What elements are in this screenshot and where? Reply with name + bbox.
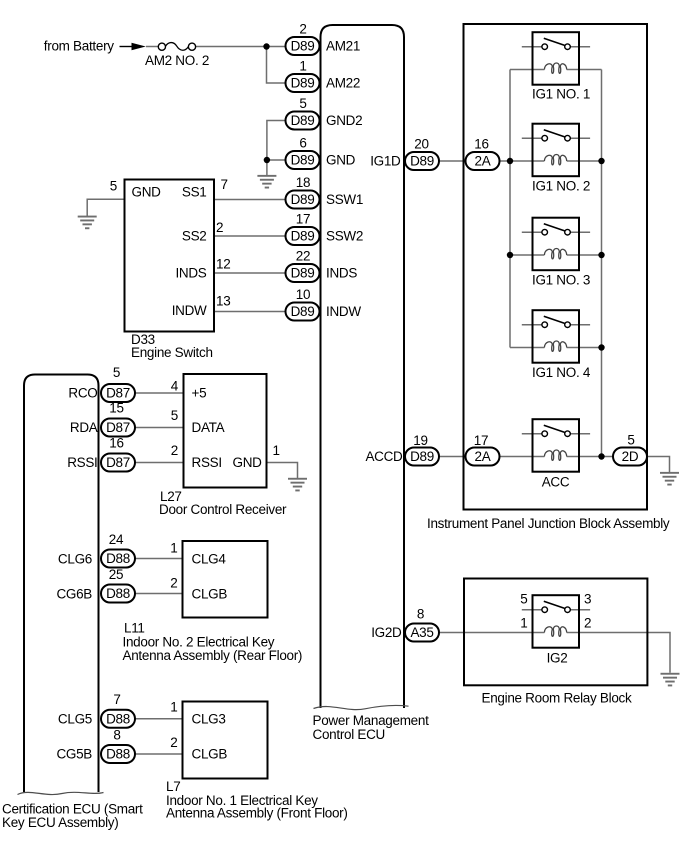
wire CLG5 to L7 bbox=[135, 718, 183, 720]
ground (GND2/GND of ECU) bbox=[257, 175, 276, 189]
wire CLG6 to L11 bbox=[135, 558, 183, 560]
svg-text:Antenna Assembly (Front Floor): Antenna Assembly (Front Floor) bbox=[166, 806, 348, 821]
svg-text:L7: L7 bbox=[166, 779, 180, 794]
svg-text:INDW: INDW bbox=[172, 303, 207, 318]
ECU U1 box bbox=[321, 25, 405, 708]
svg-text:IG1 NO. 3: IG1 NO. 3 bbox=[532, 272, 590, 287]
svg-text:17: 17 bbox=[296, 212, 310, 227]
connector D89 pin 2 (AM21) bbox=[286, 37, 320, 55]
svg-text:INDW: INDW bbox=[326, 304, 361, 319]
svg-text:4: 4 bbox=[171, 379, 179, 394]
ground (engine switch) bbox=[78, 216, 97, 230]
svg-text:2A: 2A bbox=[475, 449, 491, 464]
certification ECU break wave bbox=[18, 792, 104, 794]
svg-text:D89: D89 bbox=[291, 39, 315, 54]
node GND junction bbox=[264, 157, 270, 163]
svg-text:IG1 NO. 4: IG1 NO. 4 bbox=[532, 365, 591, 380]
connector D88 pin 8 (CG5B) bbox=[101, 745, 135, 763]
svg-text:5: 5 bbox=[110, 179, 117, 194]
wire GND2 to ground bbox=[267, 121, 286, 176]
svg-text:IG2: IG2 bbox=[547, 650, 568, 665]
svg-text:AM22: AM22 bbox=[326, 76, 360, 91]
svg-text:CLG5: CLG5 bbox=[58, 711, 92, 726]
svg-text:Key ECU Assembly): Key ECU Assembly) bbox=[2, 815, 118, 830]
connector D88 pin 25 (CG6B) bbox=[101, 585, 135, 603]
fuse 2A pin 16 bbox=[466, 152, 500, 170]
wire IG1 NO.2 coil to right bus bbox=[579, 160, 602, 162]
svg-text:1: 1 bbox=[299, 59, 306, 74]
wire battery branch to AM22 bbox=[267, 47, 286, 84]
wire IG1 NO.1 coil leads bbox=[510, 69, 533, 71]
wire SS2 to SSW2 bbox=[214, 235, 286, 237]
svg-text:2: 2 bbox=[584, 616, 591, 631]
svg-text:13: 13 bbox=[216, 294, 230, 309]
svg-text:D89: D89 bbox=[291, 113, 315, 128]
wire IG1 NO.3 coil leads bbox=[510, 254, 533, 256]
wire ACC coil to 2D bbox=[579, 456, 613, 458]
relay IG1 NO. 2 bbox=[522, 124, 590, 177]
svg-text:AM2 NO. 2: AM2 NO. 2 bbox=[145, 53, 209, 68]
wire L27 GND to ground bbox=[267, 463, 298, 479]
engine switch D33 box bbox=[125, 180, 215, 332]
svg-text:18: 18 bbox=[296, 175, 310, 190]
relay IG1 NO. 1 bbox=[522, 32, 590, 84]
svg-text:25: 25 bbox=[109, 567, 123, 582]
wire 2A fuse to ACC coil bbox=[500, 456, 533, 458]
svg-text:L11: L11 bbox=[124, 621, 145, 636]
connector D89 pin 10 (INDW) bbox=[286, 303, 320, 321]
wire RSSI to L27 bbox=[135, 462, 184, 464]
indoor no.2 antenna box bbox=[183, 541, 268, 618]
svg-text:Instrument Panel Junction Bloc: Instrument Panel Junction Block Assembly bbox=[427, 516, 670, 531]
svg-text:DATA: DATA bbox=[192, 420, 225, 435]
svg-text:2: 2 bbox=[216, 220, 223, 235]
connector A35 pin 8 (IG2D) bbox=[405, 624, 439, 642]
svg-text:1: 1 bbox=[170, 541, 177, 556]
connector D88 pin 24 (CLG6) bbox=[101, 550, 135, 568]
svg-text:Antenna Assembly (Rear Floor): Antenna Assembly (Rear Floor) bbox=[123, 648, 303, 663]
connector D88 pin 7 (CLG5) bbox=[101, 710, 135, 728]
wire engine switch GND to ground bbox=[87, 199, 124, 216]
svg-text:AM21: AM21 bbox=[326, 39, 360, 54]
node left bus IG1 NO.2 bbox=[507, 158, 513, 164]
wire 2D to ground bbox=[647, 457, 669, 473]
node right bus ACC bbox=[598, 453, 604, 459]
wire A35 to IG2 coil bbox=[439, 632, 533, 634]
wire IG1 NO.4 coil leads bbox=[510, 347, 533, 349]
svg-text:12: 12 bbox=[216, 257, 230, 272]
svg-text:ACC: ACC bbox=[542, 475, 570, 490]
svg-text:2: 2 bbox=[170, 735, 177, 750]
svg-text:24: 24 bbox=[109, 532, 124, 547]
wire from battery to AM21 bbox=[146, 46, 158, 48]
svg-text:SSW1: SSW1 bbox=[326, 192, 363, 207]
connector 2D pin 5 bbox=[613, 448, 647, 466]
svg-text:D89: D89 bbox=[291, 229, 315, 244]
wire IG1D D89 to 2A fuse bbox=[439, 160, 466, 162]
connector D89 pin 18 (SSW1) bbox=[286, 191, 320, 209]
svg-text:SS2: SS2 bbox=[182, 229, 207, 244]
svg-text:IG1 NO. 2: IG1 NO. 2 bbox=[532, 179, 590, 194]
relay IG2 bbox=[522, 595, 590, 648]
svg-text:D89: D89 bbox=[410, 449, 434, 464]
indoor no.1 antenna box bbox=[183, 702, 268, 779]
svg-text:D87: D87 bbox=[106, 455, 130, 470]
svg-text:CLG3: CLG3 bbox=[192, 711, 226, 726]
svg-text:RCO: RCO bbox=[68, 386, 97, 401]
svg-text:D88: D88 bbox=[106, 551, 130, 566]
ground (IG2 engine room) bbox=[661, 673, 680, 687]
svg-text:CLG6: CLG6 bbox=[58, 552, 92, 567]
connector D89 pin 5 (GND2) bbox=[286, 112, 320, 130]
wire IG2 coil to ground bbox=[579, 633, 670, 673]
svg-text:D89: D89 bbox=[291, 266, 315, 281]
left bus bbox=[509, 70, 511, 348]
svg-text:Door Control Receiver: Door Control Receiver bbox=[159, 502, 287, 517]
svg-text:D88: D88 bbox=[106, 711, 130, 726]
svg-text:D89: D89 bbox=[291, 76, 315, 91]
node right bus IG1 NO.3 bbox=[598, 252, 604, 258]
wire GND to junction bbox=[267, 159, 286, 161]
svg-text:GND: GND bbox=[233, 455, 263, 470]
svg-text:CG5B: CG5B bbox=[56, 747, 92, 762]
svg-text:16: 16 bbox=[474, 136, 488, 151]
instrument panel junction block box bbox=[464, 24, 648, 510]
svg-text:Control ECU: Control ECU bbox=[313, 727, 385, 742]
right bus bbox=[601, 70, 603, 457]
svg-text:10: 10 bbox=[296, 287, 310, 302]
wire battery arrow bbox=[120, 46, 134, 48]
wire RCO to L27 bbox=[135, 392, 184, 394]
svg-text:GND: GND bbox=[132, 185, 162, 200]
svg-text:3: 3 bbox=[584, 592, 591, 607]
node right bus IG1 NO.4 bbox=[598, 344, 604, 350]
svg-text:22: 22 bbox=[296, 249, 310, 264]
wire CG6B to L11 bbox=[135, 593, 183, 595]
svg-text:GND: GND bbox=[326, 153, 356, 168]
svg-text:SS1: SS1 bbox=[182, 185, 207, 200]
svg-text:CG6B: CG6B bbox=[56, 587, 92, 602]
svg-text:D89: D89 bbox=[291, 192, 315, 207]
connector D87 pin 5 (RCO) bbox=[101, 384, 135, 402]
svg-text:5: 5 bbox=[299, 96, 306, 111]
svg-text:5: 5 bbox=[520, 592, 527, 607]
svg-text:8: 8 bbox=[417, 607, 424, 622]
connector D87 pin 15 (RDA) bbox=[101, 419, 135, 437]
svg-text:RSSI: RSSI bbox=[67, 455, 97, 470]
svg-text:5: 5 bbox=[113, 365, 120, 380]
relay IG1 NO. 3 bbox=[522, 218, 590, 271]
svg-text:IG1 NO. 1: IG1 NO. 1 bbox=[532, 86, 590, 101]
svg-text:17: 17 bbox=[474, 433, 488, 448]
svg-text:2: 2 bbox=[170, 576, 177, 591]
connector D89 pin 1 (AM22) bbox=[286, 74, 320, 92]
connector D87 pin 16 (RSSI) bbox=[101, 454, 135, 472]
svg-text:Engine Room Relay Block: Engine Room Relay Block bbox=[482, 691, 632, 706]
svg-text:IG1D: IG1D bbox=[370, 153, 401, 168]
svg-text:6: 6 bbox=[299, 136, 306, 151]
wire CG5B to L7 bbox=[135, 753, 183, 755]
svg-text:D87: D87 bbox=[106, 386, 130, 401]
fuse 2A pin 17 bbox=[466, 448, 500, 466]
wire ACCD D89 to 2A fuse bbox=[439, 456, 466, 458]
svg-text:D88: D88 bbox=[106, 747, 130, 762]
svg-text:16: 16 bbox=[109, 436, 123, 451]
relay ACC bbox=[522, 419, 590, 472]
svg-text:CLGB: CLGB bbox=[192, 747, 228, 762]
svg-text:D89: D89 bbox=[291, 153, 315, 168]
svg-text:A35: A35 bbox=[410, 625, 433, 640]
svg-text:RSSI: RSSI bbox=[192, 455, 222, 470]
svg-text:+5: +5 bbox=[192, 386, 207, 401]
connector D89 pin 19 (ACCD) bbox=[405, 448, 439, 466]
door control receiver box bbox=[184, 374, 267, 488]
node battery junction bbox=[263, 43, 269, 49]
svg-text:5: 5 bbox=[171, 408, 178, 423]
fuse AM2 NO. 2 bbox=[158, 43, 165, 50]
svg-text:D89: D89 bbox=[410, 154, 434, 169]
relay IG1 NO. 4 bbox=[522, 310, 590, 363]
connector D89 pin 22 (INDS) bbox=[286, 264, 320, 282]
svg-text:1: 1 bbox=[170, 700, 177, 715]
node left bus IG1 NO.3 bbox=[507, 252, 513, 258]
svg-text:SSW2: SSW2 bbox=[326, 229, 363, 244]
svg-text:1: 1 bbox=[273, 443, 280, 458]
svg-text:2: 2 bbox=[171, 443, 178, 458]
svg-text:D89: D89 bbox=[291, 304, 315, 319]
wire SS1 to SSW1 bbox=[214, 199, 286, 201]
connector D89 pin 20 (IG1D) bbox=[405, 152, 439, 170]
connector D89 pin 17 (SSW2) bbox=[286, 227, 320, 245]
svg-text:15: 15 bbox=[109, 401, 123, 416]
svg-text:INDS: INDS bbox=[175, 266, 206, 281]
wire INDW bbox=[214, 311, 286, 313]
ground (door control receiver) bbox=[288, 478, 307, 492]
svg-text:from Battery: from Battery bbox=[44, 39, 114, 54]
svg-text:2D: 2D bbox=[622, 449, 639, 464]
svg-text:IG2D: IG2D bbox=[371, 625, 402, 640]
svg-text:CLG4: CLG4 bbox=[192, 552, 227, 567]
svg-text:D88: D88 bbox=[106, 586, 130, 601]
svg-text:7: 7 bbox=[221, 177, 228, 192]
wire INDS bbox=[214, 272, 286, 274]
wire RDA to L27 bbox=[135, 427, 184, 429]
svg-text:19: 19 bbox=[413, 433, 427, 448]
svg-text:Engine Switch: Engine Switch bbox=[131, 345, 213, 360]
svg-text:5: 5 bbox=[627, 433, 634, 448]
svg-text:2A: 2A bbox=[475, 154, 491, 169]
engine room relay block box bbox=[464, 579, 647, 686]
connector D89 pin 6 (GND) bbox=[286, 151, 320, 169]
ground (2D instrument panel) bbox=[660, 472, 679, 486]
svg-text:RDA: RDA bbox=[70, 420, 98, 435]
node right bus IG1 NO.2 bbox=[598, 158, 604, 164]
svg-text:7: 7 bbox=[113, 692, 120, 707]
ECU break wave bbox=[314, 705, 409, 709]
svg-text:INDS: INDS bbox=[326, 266, 357, 281]
svg-text:8: 8 bbox=[113, 728, 120, 743]
svg-text:CLGB: CLGB bbox=[192, 587, 228, 602]
svg-text:ACCD: ACCD bbox=[365, 449, 403, 464]
svg-text:20: 20 bbox=[414, 136, 428, 151]
certification ECU box bbox=[24, 375, 99, 793]
svg-text:1: 1 bbox=[520, 616, 527, 631]
svg-text:2: 2 bbox=[299, 22, 306, 37]
svg-text:D87: D87 bbox=[106, 420, 130, 435]
svg-text:GND2: GND2 bbox=[326, 113, 362, 128]
wire 2A fuse to IG1 NO.2 coil bbox=[500, 160, 533, 162]
